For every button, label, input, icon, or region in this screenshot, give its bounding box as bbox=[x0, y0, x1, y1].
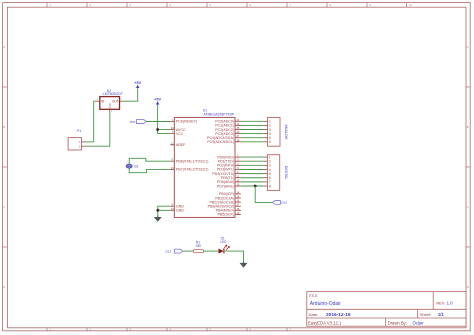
svg-text:TITLE:: TITLE: bbox=[309, 294, 319, 298]
svg-text:Arduino-Odair: Arduino-Odair bbox=[310, 301, 341, 307]
ANALOG pin 4 stub bbox=[264, 133, 268, 135]
DIGITAL pin 5 stub bbox=[264, 173, 268, 175]
svg-text:3: 3 bbox=[130, 5, 132, 7]
P1 pin 1 stub bbox=[82, 141, 87, 143]
net flag D13 at connector bbox=[272, 201, 280, 205]
wire branch to AVCC bbox=[158, 129, 171, 131]
svg-text:2: 2 bbox=[90, 5, 92, 7]
svg-text:6: 6 bbox=[250, 5, 252, 7]
U1 right pin 19 PB5(SCK) bbox=[235, 213, 241, 215]
resistor R1 body bbox=[193, 250, 203, 253]
U1 right pin 14 PB0(ICP) bbox=[235, 193, 241, 195]
wire junction to D13 flag bbox=[255, 186, 272, 202]
svg-text:330: 330 bbox=[196, 244, 202, 248]
U1 right pin 6 PD4(XCK/T0) bbox=[235, 173, 241, 175]
DIGITAL pin 8 stub bbox=[264, 185, 268, 187]
DIGITAL pin 7 stub bbox=[264, 181, 268, 183]
U1 right pin 2 PD0(RXD) bbox=[235, 156, 241, 158]
wire P1 pin1 to U2 IN bbox=[86, 101, 96, 142]
svg-text:DIGITAL: DIGITAL bbox=[284, 166, 288, 180]
wire LED to ground bbox=[224, 251, 244, 262]
DIGITAL pin 6 stub bbox=[264, 177, 268, 179]
U1 right pin 11 PD5(T1) bbox=[235, 177, 241, 179]
wire U1 PD4(XCK/T0) to DIGITAL 5 bbox=[241, 173, 264, 175]
wire crystal bottom to PB7/XTAL2 bbox=[129, 168, 170, 173]
LED D1 bbox=[219, 249, 224, 254]
U1 right pin 3 PD1(TXD) bbox=[235, 160, 241, 162]
svg-text:ATMEGA328P PDIP: ATMEGA328P PDIP bbox=[203, 113, 235, 117]
wire +5V to AVCC/VCC bbox=[158, 105, 171, 134]
net flag D13 at LED bbox=[174, 249, 183, 253]
U1 left pin 20 AVCC bbox=[170, 129, 174, 131]
svg-text:GND: GND bbox=[108, 103, 111, 109]
P1 pin 2 stub bbox=[82, 145, 87, 147]
ground symbol at U1 GND pins bbox=[157, 216, 159, 218]
svg-text:Sheet:: Sheet: bbox=[420, 312, 432, 317]
U2 pin 1 IN stub bbox=[96, 100, 100, 102]
U1 right pin 24 PC1(ADC1) bbox=[235, 124, 241, 126]
U1 left pin 8 GND bbox=[170, 205, 174, 207]
wire U1 PC3(ADC3) to ANALOG 4 bbox=[241, 133, 264, 135]
frame row ticks left bbox=[3, 86, 8, 88]
connector J-DIGITAL body bbox=[267, 155, 279, 191]
U1 left pin 22 GND bbox=[170, 209, 174, 211]
frame column ticks bottom bbox=[46, 328, 48, 331]
wire U1 PD3(INT1) to DIGITAL 4 bbox=[241, 168, 264, 170]
wire U1 PD5(T1) to DIGITAL 6 bbox=[241, 177, 264, 179]
U1 right pin 28 PC5(ADC5/SCL) bbox=[235, 141, 241, 143]
svg-text:B: B bbox=[467, 125, 469, 129]
svg-text:8: 8 bbox=[330, 5, 332, 7]
frame row ticks right bbox=[466, 86, 470, 88]
svg-text:PC6(RESET): PC6(RESET) bbox=[176, 120, 197, 124]
wire U1 PC2(ADC2) to ANALOG 3 bbox=[241, 129, 264, 131]
svg-text:5: 5 bbox=[210, 5, 212, 7]
svg-text:OUT: OUT bbox=[112, 100, 119, 104]
svg-text:RST: RST bbox=[130, 120, 136, 124]
title block outline bbox=[307, 292, 466, 327]
U2 pin 3 GND stub bbox=[109, 109, 111, 113]
svg-text:9: 9 bbox=[370, 5, 372, 7]
svg-text:A: A bbox=[3, 45, 5, 49]
svg-text:2016-12-16: 2016-12-16 bbox=[326, 312, 351, 318]
U1 left pin 9 PB6(XTAL1/TOSC1) bbox=[170, 160, 174, 162]
crystal G1 bbox=[126, 164, 132, 168]
U1 right pin 13 PD7(AIN1) bbox=[235, 185, 241, 187]
U1 right pin 12 PD6(AIN0) bbox=[235, 181, 241, 183]
svg-text:Date:: Date: bbox=[309, 312, 319, 317]
connector J-ANALOG body bbox=[268, 118, 281, 147]
connector P1 body bbox=[68, 138, 81, 150]
DIGITAL pin 3 stub bbox=[264, 164, 268, 166]
svg-text:10: 10 bbox=[409, 5, 412, 7]
net flag RST (reset) bbox=[137, 120, 147, 124]
ANALOG pin 6 stub bbox=[264, 141, 268, 143]
svg-text:Odair: Odair bbox=[413, 321, 425, 326]
svg-text:C: C bbox=[467, 205, 469, 209]
svg-text:1/1: 1/1 bbox=[438, 312, 445, 317]
svg-text:7: 7 bbox=[290, 5, 292, 7]
U1 left pin 1 PC6(RESET) bbox=[170, 120, 174, 122]
junction on DIGITAL pin 8 wire bbox=[254, 185, 257, 188]
wire D13 flag to R1 bbox=[183, 250, 194, 252]
wire RST flag to PC6(RESET) bbox=[146, 121, 170, 123]
U1 right pin 4 PD2(INT0) bbox=[235, 164, 241, 166]
U1 left pin 7 VCC bbox=[170, 133, 174, 135]
svg-text:P1: P1 bbox=[77, 129, 81, 133]
ANALOG pin 3 stub bbox=[264, 129, 268, 131]
svg-text:EasyEDA V3.12.1: EasyEDA V3.12.1 bbox=[308, 320, 342, 325]
svg-text:D13: D13 bbox=[166, 249, 172, 253]
svg-text:1.0: 1.0 bbox=[447, 301, 454, 306]
wire R1 to LED bbox=[204, 250, 219, 252]
svg-text:PC5(ADC5/SCL): PC5(ADC5/SCL) bbox=[207, 140, 234, 144]
svg-text:4: 4 bbox=[170, 5, 172, 7]
svg-text:GND: GND bbox=[176, 209, 184, 213]
U1 right pin 17 PB3(MOSI/OC2) bbox=[235, 205, 241, 207]
svg-text:REV:: REV: bbox=[436, 301, 445, 305]
LED emission arrows bbox=[224, 245, 227, 249]
junction at +5V/AVCC/VCC bbox=[156, 128, 159, 131]
svg-text:PD7(AIN1): PD7(AIN1) bbox=[217, 184, 234, 188]
svg-text:A: A bbox=[467, 45, 469, 49]
ground symbol at LED cathode bbox=[243, 262, 245, 264]
U1 right pin 25 PC2(ADC2) bbox=[235, 129, 241, 131]
svg-text:PB7(XTAL2/TOSC2): PB7(XTAL2/TOSC2) bbox=[176, 168, 208, 172]
DIGITAL pin 2 stub bbox=[264, 160, 268, 162]
wire U1 PD1(TXD) to DIGITAL 2 bbox=[241, 160, 264, 162]
voltage regulator U2 body bbox=[100, 97, 120, 110]
wire crystal top to PB6/XTAL1 bbox=[129, 158, 170, 164]
title block DrawnBy cell divider bbox=[385, 318, 387, 326]
wire U1 PC0(ADC0) to ANALOG 1 bbox=[241, 120, 264, 122]
svg-text:D13: D13 bbox=[281, 201, 287, 205]
svg-text:PB5(SCK): PB5(SCK) bbox=[218, 213, 234, 217]
wire U1 PC1(ADC1) to ANALOG 2 bbox=[241, 124, 264, 126]
title block Sheet cell divider bbox=[417, 309, 419, 318]
title block row divider 2 bbox=[307, 317, 466, 319]
op IC U1 ATMEGA328P body bbox=[174, 117, 235, 217]
wire U1 PD2(INT0) to DIGITAL 3 bbox=[241, 164, 264, 166]
wire U1 PD7(AIN1) to DIGITAL 8 bbox=[241, 185, 264, 187]
svg-text:B: B bbox=[3, 125, 5, 129]
ANALOG pin 5 stub bbox=[264, 137, 268, 139]
svg-text:LM7805CDT: LM7805CDT bbox=[103, 92, 124, 96]
svg-text:AREF: AREF bbox=[176, 143, 186, 147]
U1 left pin 21 AREF bbox=[170, 144, 174, 146]
svg-text:D: D bbox=[467, 285, 469, 289]
U1 right pin 27 PC4(ADC4/SDA) bbox=[235, 137, 241, 139]
wire U1 PC5(ADC5/SCL) to ANALOG 6 bbox=[241, 141, 264, 143]
junction at GND pins bbox=[156, 209, 159, 212]
wire U1 GND pins to ground bbox=[158, 206, 171, 216]
title block row divider 1 bbox=[307, 308, 466, 310]
wire U1 PC4(ADC4/SDA) to ANALOG 5 bbox=[241, 137, 264, 139]
wire U1 PD0(RXD) to DIGITAL 1 bbox=[241, 156, 264, 158]
wire U2 OUT to +5V bbox=[123, 88, 138, 101]
wire U1 PD6(AIN0) to DIGITAL 7 bbox=[241, 181, 264, 183]
svg-text:VCC: VCC bbox=[176, 132, 184, 136]
U1 right pin 18 PB4(MISO) bbox=[235, 209, 241, 211]
wire P1 pin2 to U2 GND bbox=[86, 113, 110, 146]
svg-text:ANALOG: ANALOG bbox=[284, 125, 288, 140]
U2 pin 2 OUT stub bbox=[120, 100, 124, 102]
svg-text:8: 8 bbox=[269, 184, 271, 188]
U1 right pin 26 PC3(ADC3) bbox=[235, 133, 241, 135]
ANALOG pin 1 stub bbox=[264, 120, 268, 122]
DIGITAL pin 4 stub bbox=[264, 168, 268, 170]
U1 left pin 10 PB7(XTAL2/TOSC2) bbox=[170, 168, 174, 170]
U1 right pin 23 PC0(ADC0) bbox=[235, 120, 241, 122]
svg-text:+5V: +5V bbox=[134, 81, 141, 85]
svg-text:C: C bbox=[3, 205, 5, 209]
ANALOG pin 2 stub bbox=[264, 124, 268, 126]
svg-text:+5V: +5V bbox=[154, 97, 161, 101]
title block REV cell divider bbox=[432, 292, 434, 310]
svg-text:1: 1 bbox=[50, 5, 52, 7]
svg-text:Drawn By:: Drawn By: bbox=[388, 320, 407, 325]
U1 right pin 16 PB2(SS/OC1B) bbox=[235, 201, 241, 203]
DIGITAL pin 1 stub bbox=[264, 156, 268, 158]
svg-text:PB6(XTAL1/TOSC1): PB6(XTAL1/TOSC1) bbox=[176, 159, 208, 163]
frame column ticks top bbox=[46, 3, 48, 8]
svg-text:D: D bbox=[3, 285, 5, 289]
U1 right pin 5 PD3(INT1) bbox=[235, 168, 241, 170]
U1 right pin 15 PB1(OC1A) bbox=[235, 197, 241, 199]
svg-text:G1: G1 bbox=[134, 165, 139, 169]
svg-text:LED: LED bbox=[220, 240, 227, 244]
svg-text:6: 6 bbox=[269, 140, 271, 144]
svg-text:3: 3 bbox=[111, 111, 113, 113]
